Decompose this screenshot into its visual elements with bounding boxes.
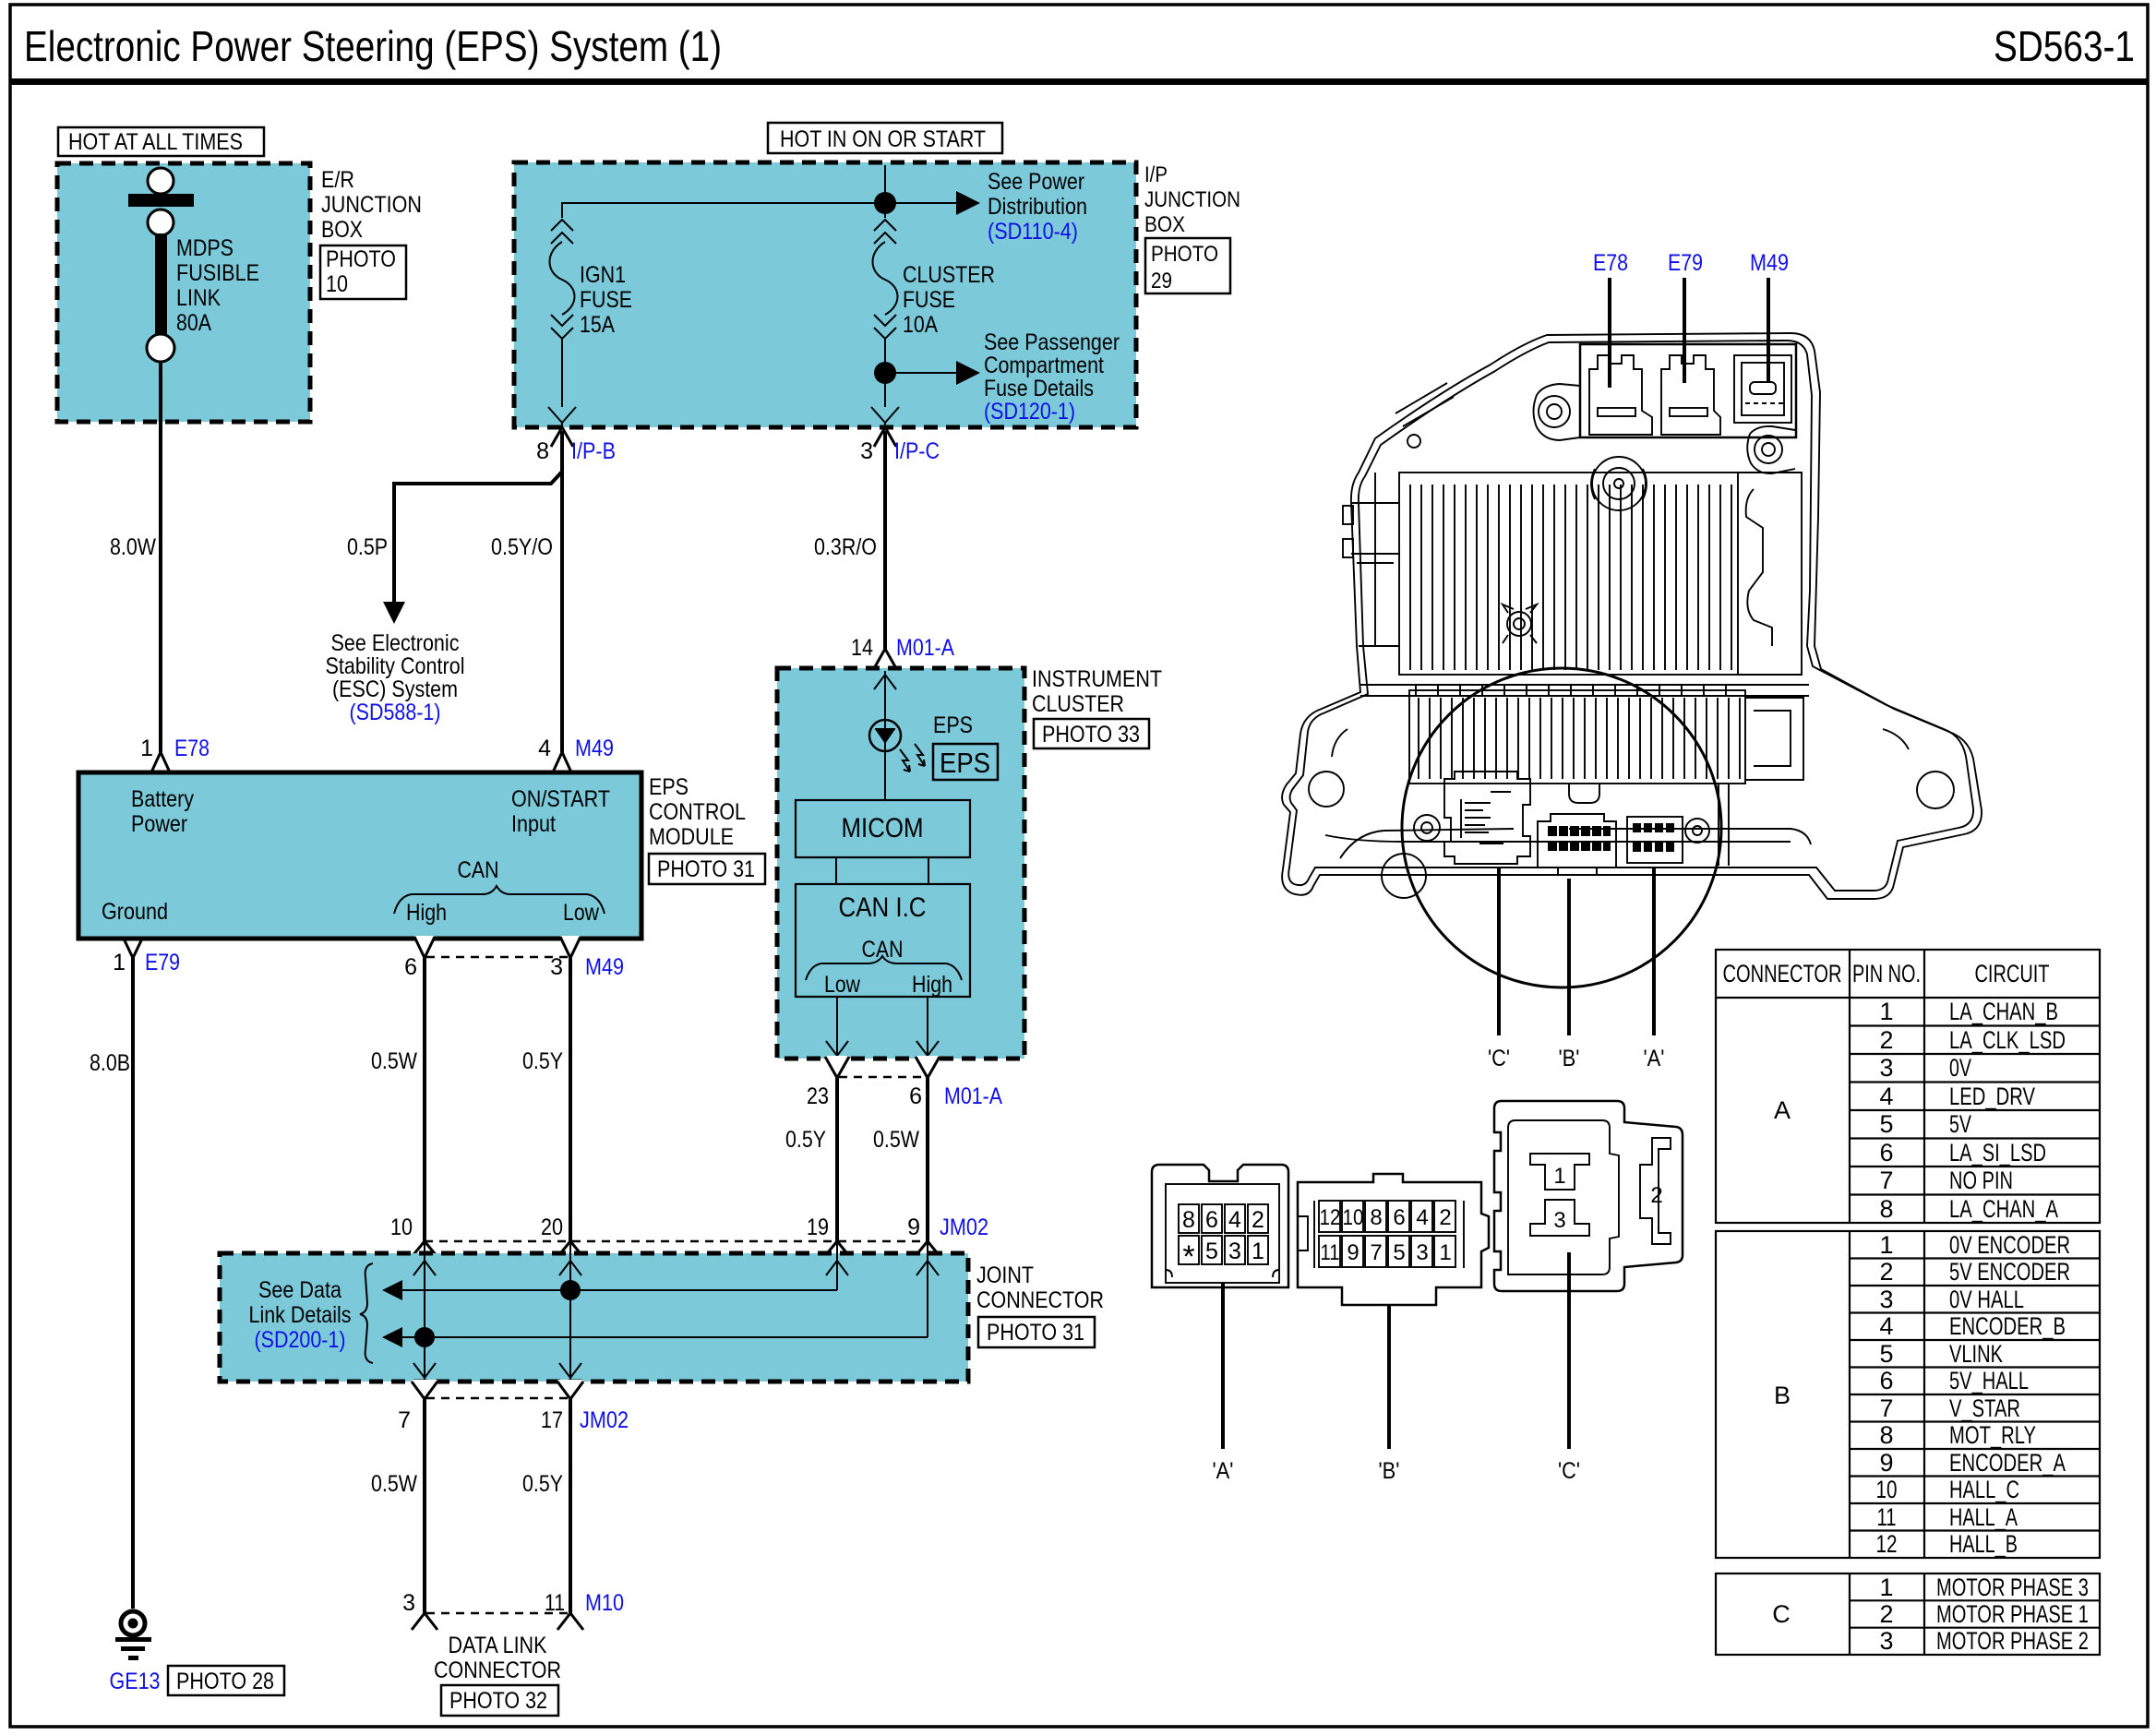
svg-text:5V ENCODER: 5V ENCODER [1949, 1258, 2070, 1286]
svg-text:'C': 'C' [1558, 1458, 1580, 1484]
svg-text:8: 8 [1182, 1207, 1195, 1233]
pin 1 slot [1530, 1154, 1589, 1190]
housing outline [1282, 333, 1982, 899]
leader line C [1567, 1252, 1571, 1449]
svg-text:Low: Low [824, 972, 861, 998]
svg-text:PHOTO 31: PHOTO 31 [987, 1320, 1084, 1346]
connector E78 socket [1589, 355, 1652, 435]
branch wire 0.5P to ESC [394, 472, 562, 604]
svg-text:80A: 80A [176, 310, 211, 336]
svg-text:4: 4 [1228, 1207, 1241, 1233]
svg-text:LINK: LINK [176, 285, 221, 311]
svg-text:6: 6 [404, 954, 417, 980]
title divider bar [10, 78, 2148, 85]
svg-text:9: 9 [907, 1214, 920, 1240]
connector dashed link JM02 top [425, 1240, 926, 1243]
CAN I.C box [796, 884, 970, 997]
svg-text:19: 19 [807, 1214, 829, 1240]
svg-text:MOTOR PHASE 2: MOTOR PHASE 2 [1936, 1627, 2089, 1655]
svg-text:1: 1 [140, 736, 153, 761]
svg-text:Ground: Ground [102, 899, 168, 925]
heat sink lower block [1409, 690, 1745, 784]
svg-text:(SD588-1): (SD588-1) [350, 700, 441, 725]
wire 0.3R/O I/P-C to cluster [883, 431, 887, 655]
label box PHOTO 32 [441, 1685, 558, 1716]
connector A detail [1627, 817, 1683, 863]
svg-text:6: 6 [1879, 1139, 1893, 1167]
data link line 2 with junction [399, 1336, 928, 1338]
svg-text:10: 10 [326, 271, 348, 297]
junction node passenger fuse [874, 362, 896, 384]
ground wire 8.0B [131, 939, 135, 1609]
svg-text:HOT AT ALL TIMES: HOT AT ALL TIMES [68, 129, 243, 155]
svg-text:2: 2 [1879, 1258, 1893, 1286]
see data link details brace [360, 1263, 373, 1363]
wire CAN High 0.5W [423, 958, 426, 1241]
svg-text:3: 3 [1879, 1286, 1893, 1313]
table C [1716, 1573, 2100, 1655]
magnifier circle [1402, 668, 1721, 987]
svg-text:3: 3 [1228, 1238, 1241, 1264]
screw left of C [1414, 815, 1440, 841]
svg-text:6: 6 [1393, 1205, 1405, 1230]
svg-text:MICOM: MICOM [842, 813, 924, 844]
small flower screw [1507, 612, 1531, 636]
pin cells A [1179, 1204, 1268, 1264]
pin cells B [1319, 1201, 1455, 1267]
connector A detail drawing [1152, 1165, 1288, 1484]
svg-text:0.5Y: 0.5Y [522, 1048, 563, 1074]
wire battery 8.0W [159, 362, 162, 752]
svg-text:LED_DRV: LED_DRV [1949, 1083, 2035, 1110]
CAN brace [394, 886, 605, 914]
svg-text:Input: Input [511, 811, 556, 837]
wire branch to IGN1 fuse [562, 203, 885, 218]
wire 0.5W to data link [423, 1399, 426, 1613]
svg-text:EPS: EPS [940, 747, 990, 779]
connector E79 socket [1661, 355, 1720, 435]
connector symbol JM02 pin 7 [412, 1380, 437, 1399]
svg-text:20: 20 [541, 1214, 563, 1240]
svg-text:5V: 5V [1949, 1110, 1971, 1138]
svg-text:8: 8 [1370, 1205, 1382, 1230]
svg-text:1: 1 [1879, 998, 1893, 1025]
svg-text:'B': 'B' [1379, 1458, 1400, 1484]
svg-text:0.5Y: 0.5Y [522, 1471, 563, 1497]
connector symbol E78 pin 1 [150, 752, 171, 775]
connector symbol CAN High pin 6 [414, 936, 435, 958]
connector dashed link M01-A [839, 1076, 926, 1079]
wire pin9 into box [927, 1241, 928, 1337]
svg-text:M49: M49 [1750, 250, 1789, 276]
svg-text:HALL_A: HALL_A [1949, 1503, 2018, 1531]
svg-text:5V_HALL: 5V_HALL [1949, 1367, 2029, 1394]
svg-text:CLUSTER: CLUSTER [903, 262, 995, 288]
svg-text:12: 12 [1320, 1205, 1341, 1230]
svg-text:2: 2 [1650, 1183, 1662, 1208]
connector C detail [1444, 772, 1530, 864]
svg-text:'A': 'A' [1213, 1458, 1234, 1484]
svg-text:23: 23 [807, 1083, 829, 1109]
svg-text:JM02: JM02 [940, 1214, 988, 1240]
svg-text:1: 1 [1879, 1231, 1893, 1259]
svg-text:4: 4 [1416, 1205, 1428, 1230]
svg-text:8: 8 [536, 438, 549, 464]
fuse IGN1 15A [548, 220, 576, 426]
connector symbol M49 pin 4 [552, 752, 572, 775]
boxed EPS [933, 744, 998, 780]
svg-text:5: 5 [1393, 1240, 1405, 1265]
svg-text:1: 1 [1439, 1240, 1451, 1265]
wire 0.5Y/O from I/P-B to M49 pin 4 [560, 431, 564, 752]
svg-text:BOX: BOX [1144, 212, 1185, 237]
svg-text:(ESC) System: (ESC) System [332, 676, 458, 702]
screw below M49 [1755, 436, 1782, 463]
wire pin19 into box [836, 1241, 838, 1290]
right bracket panel [1738, 473, 1802, 675]
svg-text:See Passenger: See Passenger [984, 329, 1120, 355]
svg-text:3: 3 [1879, 1054, 1893, 1082]
connector symbol M10 pin 11 [557, 1613, 583, 1630]
svg-text:7: 7 [398, 1407, 411, 1433]
svg-text:MOT_RLY: MOT_RLY [1949, 1421, 2036, 1449]
svg-text:0V: 0V [1949, 1054, 1971, 1082]
svg-text:FUSE: FUSE [903, 287, 955, 313]
svg-text:M10: M10 [585, 1590, 624, 1616]
svg-text:3: 3 [860, 438, 873, 464]
svg-text:17: 17 [541, 1407, 563, 1433]
CAN Low wire down [836, 997, 838, 1056]
housing extra details [1569, 784, 1599, 803]
CAN brace cluster [806, 956, 962, 980]
svg-text:8.0B: 8.0B [90, 1050, 130, 1076]
left wing hole [1309, 772, 1344, 807]
svg-text:JUNCTION: JUNCTION [1144, 187, 1240, 212]
svg-text:I/P-B: I/P-B [571, 438, 616, 464]
svg-text:7: 7 [1370, 1240, 1382, 1265]
connector dashed link M49 [426, 956, 569, 959]
connector B detail drawing [1298, 1174, 1489, 1484]
svg-text:LA_CHAN_B: LA_CHAN_B [1949, 998, 2058, 1025]
wire 0.5Y to data link [569, 1399, 572, 1613]
svg-text:CAN I.C: CAN I.C [839, 892, 927, 923]
svg-text:LA_SI_LSD: LA_SI_LSD [1949, 1139, 2046, 1167]
svg-text:3: 3 [402, 1590, 415, 1616]
svg-text:ENCODER_B: ENCODER_B [1949, 1312, 2066, 1340]
connector symbol M10 pin 3 [412, 1613, 437, 1630]
svg-text:2: 2 [1879, 1600, 1893, 1628]
arrow see passenger compartment [885, 372, 958, 374]
svg-text:'B': 'B' [1559, 1046, 1580, 1071]
svg-text:E78: E78 [1593, 250, 1628, 276]
svg-text:12: 12 [1876, 1530, 1898, 1558]
svg-text:1: 1 [1252, 1238, 1264, 1264]
svg-text:E79: E79 [1668, 250, 1703, 276]
svg-text:M01-A: M01-A [944, 1083, 1002, 1109]
svg-text:8: 8 [1879, 1195, 1893, 1223]
svg-text:See Data: See Data [258, 1277, 341, 1303]
svg-text:See Electronic: See Electronic [331, 630, 460, 656]
svg-text:Battery: Battery [131, 786, 194, 812]
svg-text:14: 14 [851, 635, 873, 661]
svg-text:EPS: EPS [933, 712, 973, 738]
svg-text:1: 1 [1879, 1573, 1893, 1601]
wing contours [1332, 729, 1909, 757]
svg-text:10: 10 [1343, 1205, 1364, 1230]
svg-text:8: 8 [1879, 1421, 1893, 1449]
wire from top to cluster fuse [884, 165, 886, 218]
svg-text:6: 6 [1205, 1207, 1218, 1233]
label box PHOTO 29 [1145, 238, 1230, 293]
label HOT IN ON OR START [768, 123, 1002, 153]
label box PHOTO 31 joint [978, 1317, 1095, 1347]
svg-text:2: 2 [1879, 1026, 1893, 1054]
svg-text:ENCODER_A: ENCODER_A [1949, 1449, 2066, 1477]
svg-text:*: * [1182, 1239, 1194, 1274]
svg-text:CIRCUIT: CIRCUIT [1975, 960, 2050, 987]
connector symbol CAN Low pin 3 [560, 936, 581, 958]
svg-text:CONNECTOR: CONNECTOR [434, 1657, 561, 1683]
svg-text:CONNECTOR: CONNECTOR [976, 1287, 1104, 1313]
svg-text:11: 11 [1877, 1503, 1897, 1531]
svg-text:(SD120-1): (SD120-1) [984, 399, 1075, 425]
svg-text:6: 6 [909, 1083, 922, 1109]
svg-text:5: 5 [1205, 1238, 1218, 1264]
svg-text:Compartment: Compartment [984, 353, 1104, 378]
connector symbol pin 23 [825, 1056, 849, 1078]
wire pin10 through box [424, 1241, 425, 1382]
MICOM box [796, 800, 970, 857]
label box PHOTO 28 [168, 1666, 284, 1695]
svg-text:'A': 'A' [1644, 1046, 1665, 1071]
svg-text:FUSIBLE: FUSIBLE [176, 260, 259, 286]
EPS indicator LED [869, 720, 901, 751]
svg-text:9: 9 [1879, 1449, 1893, 1477]
svg-text:Stability Control: Stability Control [326, 653, 465, 679]
bottom left tab circle [1382, 854, 1426, 898]
svg-text:A: A [1774, 1096, 1791, 1124]
connector B detail [1538, 814, 1616, 875]
svg-text:CONTROL: CONTROL [649, 799, 746, 825]
LED emission arrows [900, 749, 910, 772]
CAN High wire down [927, 997, 928, 1056]
svg-text:M49: M49 [575, 736, 614, 761]
svg-text:HALL_C: HALL_C [1949, 1476, 2019, 1503]
svg-text:EPS: EPS [649, 774, 689, 800]
joint connector box (blue dashed) [220, 1253, 968, 1382]
EPS unit mechanical drawing [1282, 250, 1982, 1071]
svg-text:4: 4 [1879, 1312, 1893, 1340]
connector dashed link M10 [426, 1612, 569, 1615]
svg-text:GE13: GE13 [110, 1669, 161, 1694]
svg-text:NO PIN: NO PIN [1949, 1167, 2013, 1194]
svg-text:High: High [912, 972, 952, 998]
svg-text:V_STAR: V_STAR [1949, 1394, 2020, 1422]
svg-text:1: 1 [1553, 1164, 1565, 1189]
svg-text:B: B [1774, 1382, 1791, 1409]
svg-text:I/P: I/P [1144, 162, 1168, 187]
svg-text:HOT IN ON OR START: HOT IN ON OR START [780, 126, 986, 152]
wire into cluster with up arrow [884, 671, 886, 801]
svg-text:0V HALL: 0V HALL [1949, 1286, 2024, 1313]
connector symbol M01-A pin 14 [873, 649, 897, 671]
svg-text:'C': 'C' [1488, 1046, 1510, 1071]
svg-text:IGN1: IGN1 [580, 262, 626, 288]
svg-text:0.5Y: 0.5Y [785, 1127, 826, 1153]
wire 0.5Y cluster low [835, 1078, 839, 1241]
svg-text:0.5P: 0.5P [347, 534, 388, 560]
svg-text:JOINT: JOINT [976, 1262, 1034, 1288]
right lower panel [1745, 698, 1803, 780]
connector dashed link JM02 bottom [426, 1397, 569, 1400]
svg-text:1: 1 [113, 950, 126, 975]
connector C detail drawing [1494, 1101, 1683, 1484]
svg-text:PHOTO: PHOTO [1151, 242, 1218, 267]
connector symbol JM02 pin 10 [412, 1241, 437, 1258]
data link line 1 with junction [399, 1289, 837, 1291]
pin 2 slot [1640, 1138, 1671, 1244]
svg-text:4: 4 [538, 736, 551, 761]
mid band ticks [1360, 685, 1809, 696]
I/P junction box (blue dashed) [514, 162, 1136, 427]
top connector block [1580, 344, 1796, 437]
svg-text:Electronic Power Steering (EPS: Electronic Power Steering (EPS) System (… [24, 22, 722, 70]
svg-text:PHOTO: PHOTO [326, 246, 396, 272]
E/R junction box (blue dashed) [57, 163, 310, 422]
svg-text:3: 3 [1879, 1627, 1893, 1655]
leader line B [1387, 1305, 1391, 1449]
svg-text:CONNECTOR: CONNECTOR [1723, 960, 1842, 987]
connector symbol E79 pin 1 [123, 936, 143, 958]
connector symbol JM02 pin 20 [557, 1241, 583, 1258]
svg-text:5: 5 [1879, 1340, 1893, 1368]
svg-text:LA_CHAN_A: LA_CHAN_A [1949, 1195, 2058, 1223]
label box PHOTO 31 [649, 854, 765, 884]
svg-text:DATA LINK: DATA LINK [449, 1633, 547, 1658]
svg-text:HALL_B: HALL_B [1949, 1530, 2018, 1558]
bottom cable line [1340, 829, 1811, 858]
table A [1716, 950, 2100, 1223]
svg-text:MODULE: MODULE [649, 824, 734, 850]
svg-text:2: 2 [1439, 1205, 1451, 1230]
right wing hole [1917, 772, 1954, 808]
svg-text:(SD200-1): (SD200-1) [255, 1327, 346, 1353]
svg-text:CAN: CAN [862, 937, 904, 963]
connector symbol JM02 pin 17 [557, 1380, 583, 1399]
svg-text:Link Details: Link Details [249, 1302, 352, 1328]
connector symbol JM02 pin 19 [824, 1241, 850, 1258]
svg-text:11: 11 [1321, 1240, 1340, 1265]
connector M49 socket [1734, 355, 1791, 423]
svg-text:10: 10 [390, 1214, 413, 1240]
junction node power distribution [874, 192, 896, 214]
svg-text:0.3R/O: 0.3R/O [814, 534, 877, 560]
leader line A [1652, 867, 1656, 1035]
svg-text:BOX: BOX [321, 217, 363, 243]
leader line C [1497, 867, 1501, 1035]
svg-text:10: 10 [1876, 1476, 1898, 1503]
svg-text:Fuse Details: Fuse Details [984, 376, 1094, 401]
svg-text:I/P-C: I/P-C [894, 438, 940, 464]
svg-text:E79: E79 [145, 950, 180, 975]
svg-text:E/R: E/R [321, 167, 354, 193]
svg-text:MOTOR PHASE 3: MOTOR PHASE 3 [1936, 1573, 2089, 1601]
svg-text:CLUSTER: CLUSTER [1032, 691, 1124, 717]
leader line E78 [1608, 278, 1611, 388]
svg-text:PHOTO 32: PHOTO 32 [449, 1688, 547, 1714]
svg-text:FUSE: FUSE [580, 287, 632, 313]
svg-text:8.0W: 8.0W [110, 534, 156, 560]
svg-text:MOTOR PHASE 1: MOTOR PHASE 1 [1936, 1600, 2089, 1628]
heat sink upper block [1399, 473, 1738, 675]
label HOT AT ALL TIMES [58, 127, 264, 156]
fuse CLUSTER 10A [871, 220, 899, 426]
svg-text:15A: 15A [580, 312, 615, 338]
left edge panel details [1351, 473, 1399, 646]
svg-text:(SD110-4): (SD110-4) [988, 219, 1078, 245]
top center bolt [1592, 457, 1646, 510]
svg-text:VLINK: VLINK [1949, 1340, 2003, 1368]
svg-text:Low: Low [563, 900, 600, 926]
exit arrows inside joint box [413, 1363, 436, 1378]
svg-text:C: C [1772, 1600, 1791, 1628]
svg-text:CAN: CAN [458, 857, 499, 883]
connector symbol pin 6 M01-A [916, 1056, 940, 1078]
leader line B [1567, 879, 1571, 1035]
leader line E79 [1683, 278, 1686, 383]
label box PHOTO 10 [320, 245, 406, 299]
connector symbol I/P-B pin 8 [551, 427, 573, 447]
svg-text:3: 3 [1416, 1240, 1428, 1265]
svg-text:5: 5 [1879, 1110, 1893, 1138]
svg-text:3: 3 [1553, 1208, 1565, 1233]
svg-text:SD563-1: SD563-1 [1994, 22, 2135, 70]
ground symbol GE13 [115, 1611, 151, 1660]
svg-text:ON/START: ON/START [511, 786, 610, 812]
arrow see power distribution [885, 202, 958, 204]
svg-text:M01-A: M01-A [896, 635, 954, 661]
pin 3 slot [1530, 1200, 1589, 1236]
svg-text:PHOTO 28: PHOTO 28 [176, 1669, 274, 1694]
screw right of A [1685, 819, 1709, 843]
svg-text:6: 6 [1879, 1367, 1893, 1394]
svg-text:High: High [406, 900, 447, 926]
svg-text:7: 7 [1879, 1394, 1893, 1422]
MICOM to CAN IC links [835, 857, 837, 884]
mount ear screw left [1539, 396, 1570, 427]
svg-text:JUNCTION: JUNCTION [321, 192, 422, 218]
connector symbol I/P-C pin 3 [874, 427, 896, 447]
wire CAN Low 0.5Y [569, 958, 572, 1241]
svg-text:4: 4 [1879, 1083, 1893, 1110]
svg-text:PHOTO 33: PHOTO 33 [1042, 722, 1140, 748]
instrument cluster box (blue dashed) [777, 668, 1024, 1059]
svg-text:Distribution: Distribution [988, 194, 1087, 220]
svg-text:7: 7 [1879, 1167, 1893, 1194]
EPS control module box [78, 772, 641, 939]
svg-text:3: 3 [550, 954, 563, 980]
svg-text:2: 2 [1252, 1207, 1264, 1233]
leader line M49 [1767, 278, 1770, 383]
svg-text:29: 29 [1151, 269, 1172, 293]
svg-text:0V ENCODER: 0V ENCODER [1949, 1231, 2070, 1259]
label box PHOTO 33 [1034, 719, 1149, 748]
svg-text:M49: M49 [585, 954, 624, 980]
svg-text:0.5Y/O: 0.5Y/O [491, 534, 553, 560]
svg-text:0.5W: 0.5W [371, 1471, 417, 1497]
fusible link MDPS 80A symbol [128, 168, 194, 362]
svg-text:0.5W: 0.5W [873, 1127, 919, 1153]
